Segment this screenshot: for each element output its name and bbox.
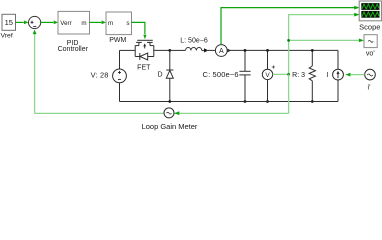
svg-text:Controller: Controller: [58, 46, 89, 53]
svg-text:15: 15: [5, 18, 13, 27]
wire Vref to summing junction: [16, 21, 29, 25]
svg-text:V: 28: V: 28: [91, 71, 109, 80]
wire switch rail FET to diode node: [154, 49, 170, 51]
top stubs: [135, 45, 139, 47]
ammeter A: [215, 45, 227, 57]
summing junction: [28, 16, 40, 28]
probe block vo': [364, 35, 377, 48]
svg-text:s: s: [126, 20, 129, 27]
svg-text:L: 50e−6: L: 50e−6: [180, 37, 208, 44]
svg-text:FET: FET: [137, 65, 151, 72]
svg-text:Verr: Verr: [60, 20, 71, 27]
svg-text:m: m: [108, 20, 113, 27]
svg-text:Scope: Scope: [359, 22, 380, 31]
terminal posts: [134, 46, 136, 57]
block U1 PID Controller: [58, 11, 90, 34]
node dot V bottom: [266, 100, 269, 103]
channel contacts: [136, 41, 142, 43]
wire V28 branch: [119, 50, 121, 69]
gate bar: [137, 39, 153, 41]
svg-text:I: I: [327, 72, 329, 79]
wire i' to I: [350, 74, 364, 76]
wire V28 bottom: [119, 83, 121, 102]
svg-text:Loop Gain Meter: Loop Gain Meter: [142, 122, 198, 131]
diode D: [166, 70, 173, 78]
node dot vo: [287, 73, 290, 76]
transistor FET (MOSFET with body diode): [135, 40, 154, 60]
label PID Controller: [58, 40, 89, 53]
wire summing junction to PID: [41, 21, 58, 25]
ammeter out mark: [228, 49, 231, 53]
body diode: [135, 56, 140, 58]
wire feedback up to summing junction: [34, 34, 36, 114]
block U2 PWM: [106, 12, 132, 35]
node dot R top: [311, 49, 314, 52]
bulk arrow: [144, 45, 146, 48]
wire vo node down to feedback rail: [288, 74, 290, 113]
wire vo node to scope input 2: [289, 15, 355, 75]
svg-text:V: V: [265, 72, 270, 79]
feedback rail: [35, 112, 289, 114]
scope block: [359, 1, 381, 21]
wire switch rail left of FET: [120, 49, 136, 51]
svg-text:Vref: Vref: [1, 33, 13, 40]
wire to current source I: [337, 50, 339, 69]
voltmeter V branch: [267, 50, 269, 69]
wire vo node to vo' probe: [289, 39, 360, 41]
svg-text:D: D: [158, 71, 163, 78]
svg-text:R: 3: R: 3: [292, 72, 305, 79]
wire PID to PWM: [90, 21, 106, 25]
wire PWM s to FET gate: [132, 22, 147, 39]
node dot V top: [266, 49, 269, 52]
node dot diode bottom: [168, 100, 171, 103]
node dot R bottom: [311, 100, 314, 103]
wire diode branch top: [169, 50, 171, 70]
current direction arrow before ammeter: [204, 48, 208, 52]
svg-text:m: m: [81, 20, 86, 27]
inductor L: [170, 47, 205, 50]
wire diode bottom: [169, 78, 171, 101]
node dot vo' tap: [287, 39, 290, 42]
current source I: [333, 69, 344, 80]
resistor R branch: [309, 50, 315, 101]
wire voltmeter to vo node: [273, 73, 289, 75]
node dot C bottom: [244, 100, 247, 103]
ground rail: [120, 101, 339, 103]
wire output rail: [227, 49, 338, 51]
svg-text:i': i': [368, 84, 371, 91]
voltage source V: 28: [113, 69, 127, 83]
svg-text:vo': vo': [366, 50, 375, 57]
capacitor C branch: [239, 50, 250, 101]
node switch junction dot: [168, 49, 171, 52]
svg-text:A: A: [219, 48, 224, 55]
svg-text:C: 500e−6: C: 500e−6: [203, 70, 239, 79]
wire ammeter to scope: [221, 6, 360, 45]
constant block Vref value 15: [2, 14, 16, 30]
node dot C top: [244, 49, 247, 52]
loop gain meter: [164, 108, 174, 118]
voltmeter V: [262, 65, 275, 79]
small-signal source i': [365, 69, 376, 80]
svg-text:PWM: PWM: [109, 37, 126, 44]
